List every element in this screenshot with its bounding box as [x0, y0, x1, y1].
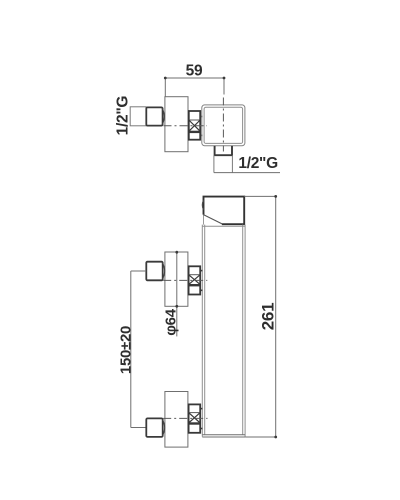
head left lower edge (front view) — [203, 215, 205, 225]
column top edge (front view) — [202, 225, 245, 227]
horizontal centerline (top view) — [164, 125, 208, 127]
cartridge top box divider (top view) — [189, 119, 200, 121]
cartridge X (top view) — [189, 120, 200, 131]
svg-text:150±20: 150±20 — [117, 326, 134, 374]
inlet nut (top view) — [146, 107, 162, 125]
upper wall plate (front view) — [165, 252, 188, 306]
upper cartridge nubs (front view) — [200, 271, 202, 291]
body square outer (top view) — [202, 105, 245, 146]
cartridge thick divider (top view) — [189, 131, 200, 133]
svg-text:1/2"G: 1/2"G — [238, 155, 278, 172]
dimension 150 line — [130, 271, 132, 428]
head lever diagonal (front view) — [203, 215, 222, 224]
svg-text:1/2"G: 1/2"G — [115, 96, 132, 136]
dimension 261 line — [275, 196, 277, 437]
dimension 59 line — [165, 78, 224, 97]
head box (front view) — [204, 197, 245, 225]
upper centerline (front view) — [163, 279, 207, 281]
lower cartridge X (front view) — [189, 413, 201, 423]
lower cartridge frame (front view) — [189, 404, 201, 432]
dimension 59 end ticks — [164, 77, 226, 80]
cartridge nubs to body (top view) — [200, 117, 202, 136]
svg-text:59: 59 — [186, 62, 203, 79]
axis junction dot bottom — [175, 305, 178, 308]
lower cartridge top divider (front view) — [189, 412, 201, 414]
head left arc (front view) — [202, 200, 203, 209]
svg-text:261: 261 — [259, 303, 278, 330]
dimension 150 upper connector — [131, 270, 146, 272]
lower inlet nut (front view) — [146, 418, 162, 437]
column bottom edge (front view) — [202, 435, 245, 437]
upper inlet nut arc (front view) — [162, 263, 164, 279]
inlet pipe (top view) — [130, 107, 146, 126]
outlet pipe (top view) — [214, 155, 233, 172]
upper cartridge top divider (front view) — [189, 274, 201, 276]
axis junction dot top — [175, 251, 178, 254]
lower wall plate (front view) — [165, 392, 188, 448]
dimension 261 end ticks — [274, 195, 277, 438]
upper plate axis line / phi64 leader — [176, 252, 178, 337]
outlet stub (top view) — [215, 146, 232, 155]
upper inlet nut (front view) — [146, 262, 162, 281]
column left wall (front view) — [202, 225, 204, 437]
dimension 150 lower connector — [131, 427, 146, 429]
wall plate (top view) — [165, 97, 188, 152]
upper cartridge frame (front view) — [189, 266, 201, 294]
upper cartridge X (front view) — [189, 275, 201, 285]
lower cartridge nubs (front view) — [200, 409, 202, 429]
lower centerline (front view) — [163, 417, 207, 419]
inlet nut arc (top view) — [162, 108, 164, 124]
cartridge frame (top view) — [189, 111, 200, 140]
body vertical centerline (top view) — [222, 95, 224, 152]
column right wall (front view) — [243, 225, 245, 437]
upper cartridge thick divider (front view) — [189, 284, 201, 286]
body square inner (top view) — [204, 107, 243, 143]
lower inlet nut arc (front view) — [162, 420, 164, 436]
dimension 261 extension bottom — [245, 436, 276, 438]
lower cartridge thick divider (front view) — [189, 422, 201, 424]
outlet label leader line — [214, 172, 280, 174]
dimension 261 extension top — [244, 195, 275, 197]
svg-text:φ64: φ64 — [162, 308, 179, 335]
